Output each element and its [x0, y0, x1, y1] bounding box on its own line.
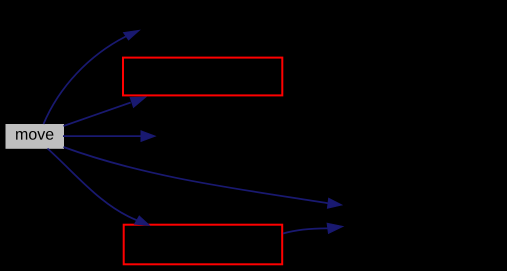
edge move -> red box 1	[64, 103, 131, 127]
node red box 2 (truncated callee)	[124, 225, 283, 265]
arrowhead 4	[327, 198, 342, 209]
arrowhead 5	[134, 216, 150, 226]
arrowhead 6	[327, 223, 344, 234]
arrowhead 2	[130, 97, 146, 108]
node move (grey box)	[6, 124, 65, 149]
edge move -> middle node (horizontal)	[63, 135, 141, 137]
node red box 1 (truncated callee)	[123, 58, 282, 96]
arrowhead 1	[123, 30, 140, 40]
edge move -> red box 2	[48, 149, 137, 221]
arrowhead 3	[141, 131, 156, 142]
edge red box 2 -> right node	[283, 228, 328, 233]
edge move -> top node (curved)	[44, 36, 126, 124]
edge move -> right node (long)	[64, 147, 328, 203]
